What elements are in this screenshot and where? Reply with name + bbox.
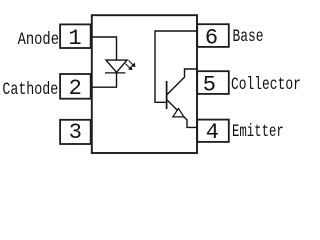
pin box 5 (197, 71, 229, 94)
svg-text:2: 2 (69, 76, 82, 101)
pin box 2 (60, 74, 91, 99)
svg-text:6: 6 (205, 26, 218, 51)
LED D1 triangle (106, 60, 127, 72)
pin box 4 (197, 120, 229, 142)
svg-text:Collector: Collector (231, 74, 301, 94)
pin box 3 (60, 120, 91, 144)
phototransistor Q1 emitter wire to pin 4 (167, 100, 197, 128)
svg-text:Base: Base (233, 26, 264, 46)
light emission arrow upper (129, 60, 136, 66)
svg-text:Cathode: Cathode (2, 79, 58, 99)
svg-text:5: 5 (203, 72, 216, 97)
LED D1 cathode wire to pin 2 (92, 73, 117, 87)
LED D1 cathode bar (105, 72, 125, 74)
light emission arrow lower (125, 64, 132, 70)
LED D1 anode wire from pin 1 (92, 37, 117, 60)
IC body outline U1 (92, 15, 197, 153)
phototransistor Q1 base wire from pin 6 (155, 31, 197, 102)
phototransistor Q1 emitter arrowhead (173, 109, 184, 117)
phototransistor Q1 base bar (166, 81, 168, 109)
pin box 1 (60, 24, 91, 48)
svg-text:3: 3 (69, 120, 82, 145)
svg-text:Anode: Anode (18, 30, 59, 50)
phototransistor Q1 collector wire to pin 5 (167, 69, 197, 95)
svg-text:1: 1 (68, 26, 81, 51)
svg-text:4: 4 (206, 120, 219, 145)
svg-text:Emitter: Emitter (232, 121, 284, 142)
pin box 6 (197, 24, 229, 47)
